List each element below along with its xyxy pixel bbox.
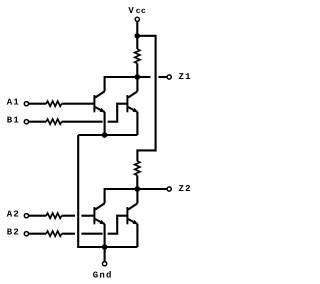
wire Q2 collector [136,77,138,91]
wire Z2 output [137,188,167,190]
label B2 [7,227,20,237]
terminal B2 [24,232,28,236]
transistor Q2 [127,91,138,112]
resistor RB2 [46,231,62,236]
wire Q1 emitter [104,112,106,135]
transistor Q1 [94,91,105,112]
wire Z1 output left segment [137,76,150,78]
wire B1 to Q2 base (after gap) [108,104,128,122]
node Z2 junction [135,186,141,192]
node gate 1 emitter junction [102,132,108,138]
terminal B1 [24,120,28,124]
svg-text:Z1: Z1 [179,72,192,82]
terminal Vcc [135,17,139,21]
node ground junction [102,244,108,250]
wire ground junction to terminal [104,247,106,262]
wire B1 terminal to resistor [29,121,46,123]
label B1 [7,115,20,125]
node Z1 junction [135,74,141,80]
label A2 [7,209,20,219]
svg-text:Z2: Z2 [179,184,192,194]
wire R1 top lead [136,36,138,49]
terminal Z2 [167,187,171,191]
resistor RA1 [46,101,62,106]
wire Q3 emitter [104,224,106,247]
label Vcc [128,6,146,16]
resistor R1 [135,49,140,63]
wire Q4 collector [136,189,138,203]
terminal Z1 [167,75,171,79]
wire RA2 to bus crossover gap [62,215,75,217]
svg-text:B1: B1 [7,115,20,125]
terminal Gnd [103,262,107,266]
transistor Q3 [94,203,105,224]
wire B2 between crossover gaps [81,233,102,235]
wire RA1 to Q1 base [62,103,95,105]
svg-text:cc: cc [136,7,146,16]
wire A1 terminal to resistor [29,103,46,105]
label Gnd [93,270,113,280]
wire RB2 to bus crossover gap [62,233,75,235]
wire B2 to Q4 base (after gap) [108,216,128,234]
terminal A2 [24,214,28,218]
svg-text:B2: B2 [7,227,20,237]
wire Vcc terminal to junction [136,22,138,36]
wire Z1 output right segment (after rail crossover gap) [158,76,167,78]
wire Q3 collector branch [105,189,138,203]
wire A2 to Q3 base (after gap) [81,215,94,217]
node Vcc junction [135,33,141,39]
wire gate 1 emitter bus [78,134,137,136]
wire RB1 to crossover gap [62,121,103,123]
svg-text:V: V [128,6,135,16]
wire Q2 emitter [136,112,138,135]
svg-text:A1: A1 [7,97,20,107]
svg-text:Gnd: Gnd [93,270,113,280]
terminal A1 [24,102,28,106]
resistor RA2 [46,213,62,218]
wire R2 bottom lead [136,175,138,189]
resistor R2 [135,161,140,175]
wire Q4 emitter [136,224,138,247]
wire Vcc rail to gate 2 [137,36,155,161]
label A1 [7,97,20,107]
wire R1 bottom lead [136,63,138,77]
resistor RB1 [46,119,62,124]
wire R2 top lead [136,160,138,162]
wire B2 terminal to resistor [29,233,46,235]
svg-text:A2: A2 [7,209,20,219]
transistor Q4 [127,203,138,224]
wire ground bus left [78,135,137,247]
label Z2 [179,184,192,194]
label Z1 [179,72,192,82]
wire A2 terminal to resistor [29,215,46,217]
wire Q1 collector branch [105,77,138,91]
